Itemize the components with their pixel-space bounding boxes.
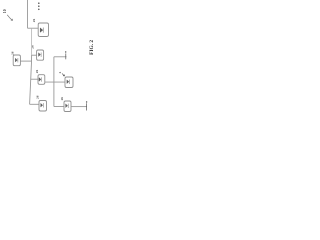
wire: stub into box C: [32, 54, 37, 56]
leader arrow from label 10: [7, 15, 12, 21]
svg-text:26: 26: [60, 97, 64, 101]
wire: rung into box G: [30, 103, 39, 105]
svg-text:FIG. 2: FIG. 2: [89, 40, 95, 55]
box A (cell module): [38, 23, 48, 37]
wire: rung from box B: [20, 60, 31, 62]
wire: left column vertical: [31, 28, 33, 55]
wire: top vertical feed: [27, 0, 29, 28]
symbol in box D: [39, 77, 42, 81]
symbol in box F: [66, 104, 69, 108]
FIG. 2 caption: [89, 40, 95, 55]
ellipsis dots (repeated cells above): [38, 2, 40, 4]
wire: box F to bottom terminal: [71, 106, 87, 108]
svg-text:26: 26: [11, 51, 15, 55]
wire: rung box D to box E: [45, 81, 65, 83]
wire: rung into box A: [28, 27, 39, 29]
terminal mark top: [65, 53, 67, 59]
svg-text:2: 2: [58, 71, 62, 73]
box C: [37, 50, 44, 60]
box F: [64, 101, 71, 112]
wire: top terminal of right column: [54, 56, 67, 58]
svg-text:26: 26: [35, 70, 39, 74]
terminal mark bottom: [86, 103, 88, 110]
box G: [39, 101, 47, 112]
box B: [13, 55, 20, 66]
wire: rung into box D: [31, 78, 38, 80]
wire: right column vertical: [53, 57, 55, 107]
symbol in box E: [67, 80, 70, 84]
box D: [38, 75, 45, 85]
symbol in box C: [39, 53, 42, 57]
svg-text:26: 26: [35, 95, 39, 99]
symbol in box G: [41, 103, 44, 107]
label 28a (arrow): [62, 74, 65, 77]
symbol in box B: [15, 58, 18, 62]
svg-text:10: 10: [3, 9, 7, 13]
symbol in box A: [40, 28, 43, 33]
svg-text:26: 26: [32, 19, 36, 23]
box E: [65, 77, 73, 88]
wire: bottom rung into box F: [54, 106, 64, 108]
